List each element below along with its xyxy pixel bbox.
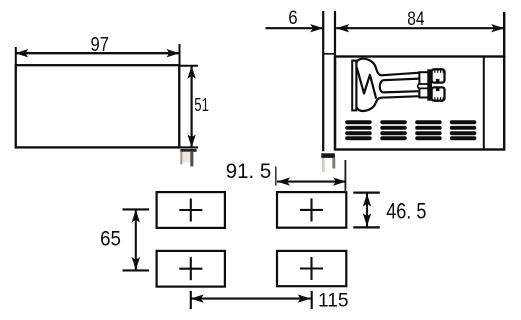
- center cross mark bottom-left: [179, 257, 202, 280]
- arrowhead left of 84: [336, 24, 349, 32]
- front view rectangle 97x51: [16, 65, 180, 147]
- svg-text:51: 51: [194, 94, 209, 115]
- dimension line 51: [191, 66, 193, 148]
- panel cutout rect bottom-left: [157, 251, 225, 287]
- center cross mark bottom-right: [300, 257, 323, 280]
- extension line left of 97 dim: [15, 47, 17, 65]
- arrowhead of 6 pointing right: [310, 24, 323, 32]
- extension line top of 51 dim: [180, 65, 199, 67]
- watermark artifact below flange: [321, 153, 335, 172]
- clamp spring zigzag: [357, 68, 376, 99]
- terminal black bar: [427, 69, 432, 100]
- arrowhead left of 91.5: [277, 177, 290, 185]
- terminal bracket: [419, 72, 428, 97]
- arrowhead right of 115: [298, 294, 311, 302]
- extension tick top of 65: [123, 208, 150, 210]
- extension line bottom of 46.5: [353, 226, 380, 228]
- svg-text:46. 5: 46. 5: [386, 199, 426, 224]
- arrowhead up of 51: [187, 66, 195, 79]
- extension tick left of 91.5: [275, 167, 277, 186]
- svg-text:97: 97: [91, 34, 109, 56]
- clamp blob with arms: [356, 59, 419, 111]
- panel cutout rect bottom-right: [277, 251, 346, 286]
- inner vertical line near rear: [483, 57, 485, 150]
- dimension line 97: [15, 52, 179, 54]
- arrowhead up of 65: [132, 210, 140, 223]
- top terminal screw: [432, 69, 445, 82]
- arrowhead down of 46.5: [363, 213, 371, 226]
- watermark artifact below front view: [180, 149, 196, 167]
- arrowhead down of 65: [132, 257, 140, 270]
- tick joining flange lines: [323, 53, 335, 55]
- dimension line 84: [336, 27, 504, 29]
- svg-text:65: 65: [100, 227, 121, 250]
- ventilation slots group 3: [415, 120, 442, 140]
- svg-text:115: 115: [318, 289, 349, 311]
- extension tick bottom of 65: [123, 269, 150, 271]
- clamp front plate bar: [352, 61, 356, 111]
- extension line top of 46.5: [353, 191, 380, 193]
- svg-text:91. 5: 91. 5: [226, 159, 271, 183]
- arrowhead down of 51: [187, 134, 195, 147]
- panel cutout rect top-left: [157, 192, 225, 228]
- extension line bottom of 51 dim: [180, 146, 199, 148]
- arrowhead up of 46.5: [363, 194, 371, 207]
- extension tick left of 115: [190, 291, 192, 309]
- side view: bezel flange right line: [334, 11, 336, 150]
- ventilation slots group 1: [345, 120, 372, 140]
- arrowhead right of 97: [167, 49, 180, 57]
- extension line right of 97 dim: [179, 44, 181, 65]
- ventilation slots group 2: [380, 120, 407, 140]
- arrowhead right of 84: [491, 24, 504, 32]
- dimension line 115: [191, 298, 311, 300]
- body rectangle of side view: [335, 57, 504, 150]
- extension line above body right edge: [503, 12, 505, 57]
- center cross mark top-left: [179, 199, 202, 222]
- panel cutout rect top-right: [277, 192, 346, 228]
- svg-text:6: 6: [288, 8, 297, 29]
- ventilation slots group 4: [450, 120, 477, 140]
- arrowhead left of 97: [15, 49, 28, 57]
- arrowhead right of 91.5: [333, 177, 346, 185]
- dimension line 65: [135, 210, 137, 270]
- arrowhead left of 115: [191, 294, 204, 302]
- dimension line 46.5: [366, 194, 368, 227]
- side view: bezel flange left line: [322, 11, 324, 151]
- center cross mark top-right: [300, 198, 323, 221]
- extension tick right of 115: [311, 291, 313, 309]
- bottom terminal screw: [432, 87, 445, 100]
- dimension line 91.5: [277, 181, 346, 183]
- dimension line 6 (left tail): [266, 27, 324, 29]
- bracket slot: [418, 84, 430, 88]
- extension line right of 91.5: [344, 160, 346, 192]
- svg-text:84: 84: [407, 8, 424, 30]
